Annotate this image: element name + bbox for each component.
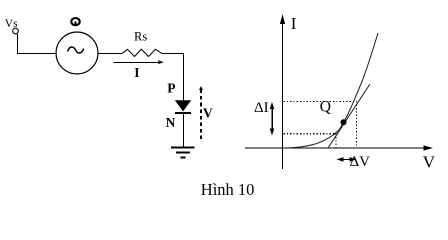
svg-text:I: I [134, 65, 139, 80]
dotted line lower horizontal [284, 133, 337, 135]
dotted vertical at V2 [356, 101, 358, 148]
delta I double arrow [270, 102, 275, 136]
dotted line top horizontal [284, 100, 357, 102]
svg-text:Hình 10: Hình 10 [201, 180, 255, 199]
V axis (horizontal) [245, 147, 430, 149]
tangent line at Q [328, 84, 370, 148]
diode IV curve [284, 33, 379, 148]
AC source sine symbol [68, 47, 84, 53]
I axis (vertical) [282, 18, 284, 169]
svg-text:V: V [423, 152, 436, 171]
voltage arrow V (dashed) [199, 86, 203, 139]
svg-text:Q: Q [320, 99, 331, 116]
wire resistor to diode corner [162, 54, 184, 101]
svg-text:N: N [166, 115, 176, 130]
resistor Rs zigzag [123, 49, 162, 56]
wire source to resistor [98, 53, 123, 55]
terminal node [13, 28, 19, 34]
svg-text:V: V [203, 106, 213, 121]
dotted vertical at V1 [335, 134, 337, 148]
AC source U1 [56, 32, 98, 74]
wire from terminal to AC source [18, 34, 57, 54]
svg-text:I: I [291, 14, 297, 33]
diode D1 anode triangle [175, 100, 191, 111]
operating point Q dot [341, 119, 347, 125]
svg-text:ΔI: ΔI [254, 100, 269, 116]
label phi above source [71, 18, 79, 26]
diode D1 cathode bar [175, 112, 191, 114]
wire diode to ground [183, 114, 185, 148]
svg-text:ΔV: ΔV [350, 154, 371, 170]
svg-text:Rs: Rs [134, 29, 147, 43]
delta V double arrow [337, 157, 357, 162]
ground [171, 148, 195, 158]
svg-text:P: P [167, 80, 175, 95]
current arrow I [113, 62, 161, 64]
